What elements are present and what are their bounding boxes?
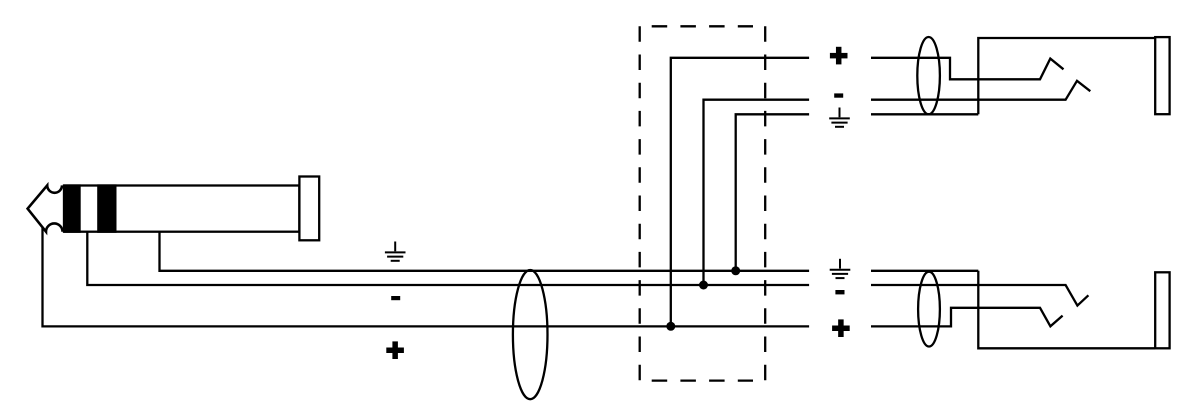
label + (top right) xyxy=(830,47,848,65)
jack socket J1 bushing xyxy=(1155,37,1169,114)
TRS plug P1 tip xyxy=(28,185,63,231)
wire: sleeve (ground/shield) lead from plug xyxy=(160,232,810,271)
wire + tip switch contact, jack socket J2 xyxy=(871,308,1063,327)
wire: ground to jack socket J1 xyxy=(871,113,978,115)
junction node on - line xyxy=(699,281,708,290)
junction node on ground line xyxy=(731,266,740,275)
wire: ring (-) lead from plug xyxy=(87,232,809,285)
label + (left) xyxy=(386,341,404,359)
junction node on + line xyxy=(666,322,675,331)
wire: - feed to top output xyxy=(704,100,810,285)
label + (bottom right) xyxy=(832,319,850,337)
TRS plug P1 strain-relief flange xyxy=(299,177,319,241)
jack socket J2 body xyxy=(978,271,1155,349)
wire + tip switch contact, jack socket J1 xyxy=(871,58,1064,80)
wire: + feed to top output xyxy=(671,58,809,327)
wire + ring switch contact, jack socket J2 xyxy=(871,285,1088,306)
ground symbol (bottom right) xyxy=(830,259,851,278)
wire + ring switch contact, jack socket J1 xyxy=(871,81,1090,100)
cable shield ellipse (top right) xyxy=(917,37,940,114)
cable shield ellipse (bottom right) xyxy=(918,272,940,347)
jack socket J2 bushing xyxy=(1155,272,1169,348)
TRS plug P1 insulator ring 1 xyxy=(64,184,81,232)
wire: ground to jack socket J2 xyxy=(871,270,978,272)
wire: tip (+) lead from plug xyxy=(43,228,810,326)
TRS plug P1 insulator ring 2 xyxy=(97,184,116,232)
ground symbol (top right) xyxy=(829,108,850,127)
wire: ground feed to top output xyxy=(736,114,809,270)
TRS plug P1 body xyxy=(64,186,299,232)
ground symbol (left, cable shield) xyxy=(385,242,406,261)
cable shield ellipse (left) xyxy=(513,270,548,399)
label - (left) xyxy=(391,296,400,300)
jack socket J1 body xyxy=(978,38,1155,114)
junction box (dashed) xyxy=(640,26,766,380)
label - (top right) xyxy=(834,93,843,97)
label - (bottom right) xyxy=(835,290,844,294)
